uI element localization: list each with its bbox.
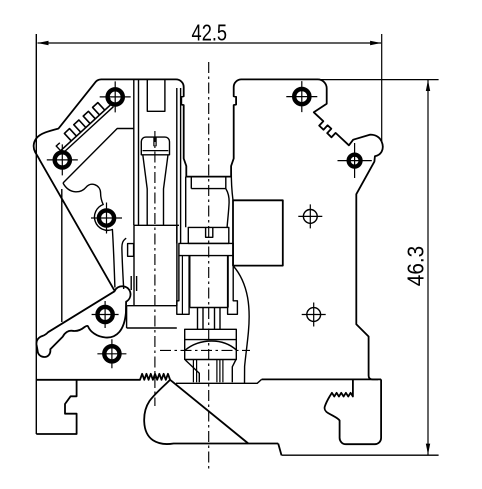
bottom edge with sawtooth and latch beak <box>36 374 278 444</box>
bottom edge right section <box>262 378 382 380</box>
dimension 46.3: bottom extension line / body bottom <box>282 454 439 456</box>
clamp body left strip <box>181 256 183 315</box>
funnel wall to shaft connector <box>231 170 233 201</box>
screw hole lower-left <box>104 346 119 361</box>
screw hole top-left <box>108 89 123 104</box>
serrated strip top hook <box>56 98 111 150</box>
dimension 42.5: left extension line / body left edge <box>35 34 37 434</box>
dimension 46.3: top extension line <box>320 79 439 81</box>
terminal screw flange <box>179 243 233 255</box>
clamp screw slot <box>154 137 156 146</box>
rail step down <box>278 444 281 456</box>
yoke side plate echo rectangle <box>128 244 134 257</box>
terminal screw head with slot <box>188 227 229 243</box>
screw hole lever boss <box>98 307 113 322</box>
pilot hole lower-right <box>307 308 321 322</box>
clamp yoke step below lever cap <box>127 306 177 328</box>
moulded island: scalloped lower contour wrapping screw hole <box>63 183 115 288</box>
terminal screw body <box>190 256 228 308</box>
inner wall S-curve right of screw <box>233 266 249 384</box>
latch beak diagonal <box>170 380 248 444</box>
clamp nut barrel arch <box>185 341 237 351</box>
terminal screw upper body <box>186 177 229 228</box>
centerline: main vertical axis <box>208 62 210 470</box>
body outline: top profile, funnel, right wing, serrated edge, right lobe, right side wall <box>101 79 383 379</box>
screw hole right lobe <box>349 155 361 167</box>
dimension 42.5: left arrow <box>38 41 49 45</box>
dimension 46.3: down arrow <box>426 444 430 455</box>
wire protector serrated strip: base double line <box>61 104 112 150</box>
serrated strip tooth 4 <box>93 103 105 115</box>
moulding contour second line <box>122 238 126 289</box>
clamp screw head <box>141 137 169 155</box>
clamp nut lower wedge <box>185 360 236 383</box>
screw hole top-right <box>294 89 309 104</box>
dimension 42.5: dimension line <box>38 42 382 44</box>
serrated strip tooth 1 <box>64 129 76 141</box>
release lever with ball tip and boss <box>36 286 130 357</box>
screw hole left <box>55 152 70 167</box>
centerline: clamp screw axis <box>154 131 156 406</box>
dimension 42.5: right arrow <box>370 41 381 45</box>
clamp screw head inner line <box>143 150 169 152</box>
spring lines above lever cap <box>131 276 136 291</box>
dimension 46.3: dimension line <box>427 80 429 455</box>
top slot window <box>147 79 165 111</box>
right mounting foot with serration <box>325 379 382 444</box>
moulded island: hypotenuse and window rectangle <box>63 129 134 184</box>
housing inner wall lines left wing <box>134 79 139 225</box>
serrated strip tooth 2 <box>74 120 86 132</box>
function shaft rectangle <box>233 200 283 265</box>
serrated strip tooth 3 <box>83 111 95 123</box>
clamp bottom edge <box>176 379 262 383</box>
moulding line vertical <box>61 189 63 322</box>
svg-text:46.3: 46.3 <box>402 246 428 287</box>
screw hole mid-left <box>99 210 114 225</box>
dimension 42.5: right extension line <box>381 34 383 141</box>
clamp nut top band <box>185 329 237 339</box>
centerline: wire axis horizontal <box>160 349 250 351</box>
funnel inner wall pair <box>177 88 181 243</box>
clamp nut barrel <box>185 340 237 360</box>
screw tip shaft <box>198 308 221 330</box>
body outline: top-left corner and left hump <box>34 79 115 290</box>
pilot hole upper-right <box>303 210 317 224</box>
screw tip lower shaft <box>193 360 223 383</box>
dimension 46.3: up arrow <box>426 80 430 91</box>
clamp yoke tall rectangle <box>127 225 179 305</box>
left mounting foot with notch <box>36 380 76 434</box>
clamp body right strip <box>228 256 238 315</box>
svg-text:42.5: 42.5 <box>192 19 228 45</box>
clamp screw tapered shank <box>143 155 168 226</box>
